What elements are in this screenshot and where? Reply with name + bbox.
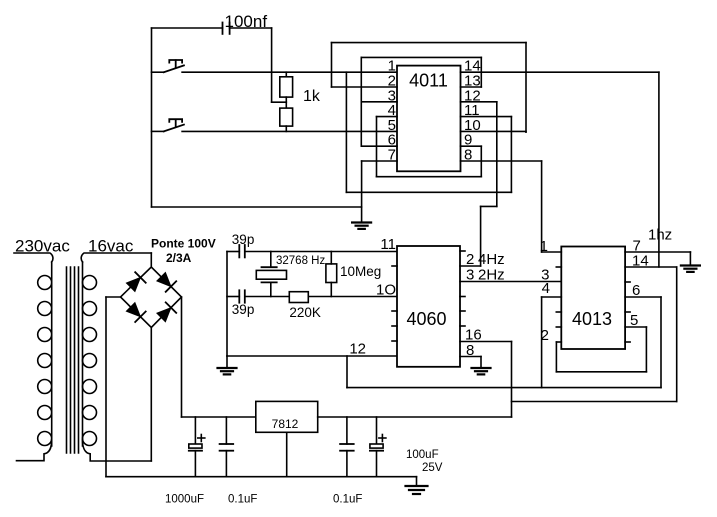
- svg-text:39p: 39p: [232, 302, 255, 317]
- wire - bridge left corner out: [106, 296, 121, 298]
- diode D4 (bottom-right arm): [157, 302, 176, 321]
- wire - ground rail: [106, 476, 417, 478]
- svg-text:0.1uF: 0.1uF: [228, 494, 257, 506]
- wire - 4013 pin1 line: [542, 251, 562, 253]
- wire - outer box left edge: [331, 43, 333, 87]
- wire - stub to ground: [226, 356, 228, 368]
- wire - pin6 drop to bottom run: [660, 297, 662, 388]
- pin stub 4060 left: [392, 325, 397, 327]
- pin stub 4060 right: [460, 296, 465, 298]
- svg-text:12: 12: [349, 341, 366, 358]
- pin stub 4013 left: [556, 311, 561, 313]
- wire - 4011 pin8 line: [461, 160, 542, 162]
- wire - 4060 pin2 4Hz line: [460, 265, 481, 267]
- svg-text:4011: 4011: [409, 71, 448, 91]
- wire - top line to capacitor C1: [152, 27, 223, 29]
- diode D3 (bottom-left arm): [126, 303, 145, 322]
- svg-text:4Hz: 4Hz: [478, 251, 505, 268]
- wire - down to pin13: [480, 57, 482, 87]
- ground - power supply: [406, 486, 428, 494]
- svg-text:16: 16: [465, 327, 482, 344]
- wire - 4013 pin5 line: [625, 326, 646, 328]
- svg-text:4060: 4060: [406, 309, 446, 329]
- wire - pin10 rail to 220K: [245, 296, 290, 298]
- wire - vertical from over-link down to pin6 line: [360, 57, 362, 146]
- transformer T1 secondary lead bottom: [83, 440, 152, 461]
- wire - 4013 pin2 stub: [556, 341, 561, 343]
- wire - 4Hz jog: [481, 205, 497, 207]
- transformer T1 secondary winding: [83, 262, 97, 446]
- wire - 4011 pin13 line: [461, 86, 482, 88]
- wire - 10Meg bottom lead: [330, 283, 332, 297]
- wire - 7812 ground lead: [286, 432, 288, 476]
- resistor R4 10Meg: [326, 264, 337, 283]
- resistor R2 1k: [280, 108, 293, 126]
- op-amp U1 4011 quad NAND body: [397, 66, 461, 172]
- wire - 4060 pin16 line: [460, 341, 512, 343]
- op-amp U2 4060 counter body: [397, 246, 460, 367]
- pin stub 4060 right: [460, 250, 465, 252]
- wire - 4011 pin6 line: [361, 145, 397, 147]
- wire - over-the-top link pin6 to pin13: [361, 56, 481, 58]
- wire - 4011 pin4 line: [377, 116, 398, 118]
- wire - pin7 down to ground: [361, 161, 363, 223]
- op-amp U3 4013 flip-flop body: [561, 247, 625, 350]
- pin stub 4060 right: [460, 310, 465, 312]
- wire - pin14 bottom run to +12V: [512, 401, 677, 403]
- wire - 16vac to bridge top corner: [150, 253, 152, 267]
- wire - pin11 rail to C2: [227, 251, 239, 253]
- wire - 4060 pin8 line: [460, 356, 481, 358]
- diode D2 (top-right arm): [157, 273, 176, 292]
- regulator U4 7812 body: [256, 401, 318, 432]
- capacitor C6 0.1uF: [340, 417, 354, 477]
- transformer T1 primary lead bottom: [17, 440, 52, 461]
- capacitor C7 100uF electrolytic: [370, 417, 386, 477]
- svg-text:2: 2: [466, 251, 474, 268]
- wire - from C1 right plate: [230, 27, 272, 29]
- wire - R1 top lead: [285, 72, 287, 77]
- wire - up to pin9: [480, 146, 482, 177]
- wire - +12V rail into 7812: [182, 416, 256, 418]
- svg-text:3: 3: [466, 267, 474, 284]
- ground - 4013 pin7: [681, 266, 700, 272]
- wire - 4013 pin14 line: [625, 266, 677, 268]
- svg-text:8: 8: [466, 342, 474, 359]
- wire - stub to supply ground: [416, 477, 418, 486]
- pin stub 4060 left: [392, 340, 397, 342]
- wire - vertical down from C1 to R junction: [271, 28, 273, 102]
- wire - outer box right edge down to pin10 line: [525, 43, 527, 133]
- pin stub 4060 left: [392, 310, 397, 312]
- transformer T1 secondary lead top: [81, 253, 151, 262]
- wire - pin1/pin11 link bottom run: [346, 191, 511, 193]
- capacitor C3 39p: [239, 290, 245, 302]
- bridge rectifier diamond: [121, 267, 182, 328]
- wire - 4011 pin3 stub line: [361, 101, 397, 103]
- pin stub 4060 left: [392, 265, 397, 267]
- wire - 4060 pin12 line: [227, 355, 397, 357]
- wire - 4060 pin3 2Hz line to 4013 pin3: [460, 281, 561, 283]
- svg-text:4013: 4013: [572, 309, 612, 329]
- resistor R1 1k: [280, 77, 293, 97]
- wire - bottom horizontal run to 4011 ground: [152, 206, 362, 208]
- wire - pin4 drop: [376, 117, 378, 177]
- wire - pin7 to ground: [689, 252, 691, 266]
- wire - long bottom run to 4013 pin6: [347, 387, 661, 389]
- svg-text:11: 11: [380, 236, 396, 253]
- svg-text:2/3A: 2/3A: [166, 251, 192, 265]
- ground - oscillator section: [218, 368, 237, 374]
- transformer T1 primary winding: [38, 262, 52, 446]
- wire - between R1 and R2: [285, 97, 287, 108]
- wire - into middle of resistor chain: [272, 101, 287, 103]
- switch S1 (push button): [152, 60, 398, 72]
- wire - 4060 pin11 line: [245, 251, 397, 253]
- pin stub 4060 right: [460, 325, 465, 327]
- capacitor C4 1000uF electrolytic: [189, 417, 205, 477]
- pin stub 4013 left: [556, 326, 561, 328]
- wire - down to ground rail: [105, 297, 107, 477]
- wire - 1hz vertical to 4013 pin14 line: [658, 72, 660, 267]
- wire - 4011 pin9 line: [461, 145, 482, 147]
- diode D1 (top-left arm): [126, 272, 145, 291]
- svg-text:25V: 25V: [422, 462, 443, 474]
- svg-text:100uF: 100uF: [406, 449, 439, 461]
- wire - outer box top edge: [332, 42, 527, 44]
- wire - pin2 drop: [555, 342, 557, 372]
- crystal X1 32768Hz: [256, 252, 286, 297]
- wire - pin4 to pin9 run: [377, 176, 482, 178]
- capacitor C2 39p: [239, 245, 245, 257]
- wire - bridge bottom corner to 16vac return: [150, 328, 152, 462]
- svg-text:4: 4: [542, 280, 550, 297]
- resistor R3 220K: [289, 292, 308, 303]
- wire - 4011 pin12 line 4Hz out: [461, 101, 497, 103]
- wire - pin4 drop to bottom run: [541, 297, 543, 388]
- svg-text:220K: 220K: [289, 305, 321, 320]
- wire - 4011 pin14 line going right to 1hz drop: [461, 71, 659, 73]
- wire - R2 bottom lead: [285, 126, 287, 131]
- pin stub 4013 right: [625, 311, 630, 313]
- capacitor C1 100nf: [223, 23, 230, 34]
- svg-text:1k: 1k: [303, 88, 321, 105]
- svg-text:39p: 39p: [232, 232, 255, 247]
- wire - 4Hz drop: [496, 102, 498, 207]
- svg-text:2Hz: 2Hz: [478, 267, 505, 284]
- wire - 4013 pin6 line: [625, 296, 661, 298]
- pin stub 4013 right: [625, 341, 630, 343]
- wire - 4013 pin4 line: [542, 296, 562, 298]
- pin stub 4013 right: [625, 281, 630, 283]
- svg-text:1O: 1O: [376, 282, 396, 299]
- ground - 4060 pin8: [472, 368, 491, 374]
- wire - 10Meg top lead: [330, 252, 332, 264]
- svg-text:32768 Hz: 32768 Hz: [276, 255, 325, 267]
- wire - 4011 pin7 line: [362, 160, 397, 162]
- wire - pin1/pin11 link vertical: [345, 72, 347, 192]
- wire - 4Hz down to 4060 pin2: [480, 206, 482, 266]
- wire - oscillator left vertical: [226, 252, 228, 357]
- wire - up to pin11 line: [510, 117, 512, 193]
- svg-text:1hz: 1hz: [648, 227, 672, 244]
- wire - up to pin5: [645, 327, 647, 372]
- wire - 4011 pin2 line: [332, 86, 398, 88]
- wire - pin12 rail drop: [346, 356, 348, 388]
- pin stub 4013 left: [556, 266, 561, 268]
- svg-text:Ponte 100V: Ponte 100V: [151, 237, 216, 251]
- wire - pin14 right drop: [676, 267, 678, 402]
- svg-text:10Meg: 10Meg: [340, 264, 381, 279]
- svg-text:7812: 7812: [272, 417, 299, 431]
- wire - 4011 pin11 line: [461, 116, 512, 118]
- svg-text:0.1uF: 0.1uF: [333, 494, 362, 506]
- capacitor C5 0.1uF: [220, 417, 234, 477]
- transformer T1 core: [67, 267, 79, 453]
- wire - bridge plus output down to +12V rail: [181, 297, 183, 417]
- wire - 4013 pin7 line: [625, 251, 690, 253]
- ground - 4011 section: [352, 223, 371, 229]
- wire - pin8 to ground: [480, 357, 482, 369]
- wire - 7812 output rail: [318, 416, 512, 418]
- wire - 4011 pin10 line: [461, 130, 527, 132]
- wire - left vertical rail from 100nf line down to ground run: [151, 28, 153, 207]
- wire - pin16 down to +12V rail: [511, 342, 513, 418]
- switch S2 (push button): [152, 119, 398, 131]
- wire - pin2 to pin5 run: [556, 371, 646, 373]
- wire - 4060 pin10 line: [308, 296, 397, 298]
- wire - pin8 down to 4013 pin1: [541, 161, 543, 252]
- transformer T1 primary lead top: [14, 253, 53, 262]
- svg-text:1000uF: 1000uF: [165, 494, 204, 506]
- wire - to C3: [227, 296, 239, 298]
